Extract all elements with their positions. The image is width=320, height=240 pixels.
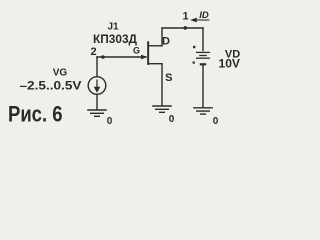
ground under source [152, 106, 172, 112]
svg-text:КП303Д: КП303Д [93, 32, 137, 46]
wire drain lead horizontal [149, 45, 163, 47]
svg-text:0: 0 [213, 116, 219, 127]
svg-text:ID: ID [199, 10, 209, 21]
svg-text:S: S [165, 72, 172, 84]
svg-text:Рис. 6: Рис. 6 [8, 102, 63, 127]
ID current arrow pointing left [192, 18, 210, 21]
svg-text:2: 2 [90, 46, 96, 58]
wire gate horizontal node2 to gate [97, 56, 146, 58]
wire node2 down to VG source [96, 57, 98, 77]
battery VD minus mark [193, 62, 195, 64]
wire source lead horizontal [149, 63, 163, 65]
svg-text:G: G [133, 46, 140, 56]
node 1 junction dot [184, 26, 188, 30]
transistor J1 gate arrowhead [141, 55, 147, 60]
ground under VG [87, 110, 107, 116]
node 2 junction dot [101, 55, 105, 59]
wire battery bottom to ground [202, 65, 204, 107]
battery VD plates [196, 52, 210, 64]
ground under battery [193, 108, 213, 114]
wire VG source bottom to ground [96, 94, 98, 109]
wire battery top vertical [202, 28, 204, 51]
svg-text:J1: J1 [107, 22, 119, 33]
voltage source VG circle [88, 77, 106, 95]
svg-text:VG: VG [53, 68, 68, 79]
svg-text:0: 0 [169, 114, 175, 125]
voltage source VG inner down arrow [95, 80, 99, 92]
svg-text:1: 1 [182, 11, 188, 23]
svg-text:0: 0 [107, 116, 113, 127]
svg-text:–2.5..0.5V: –2.5..0.5V [20, 78, 82, 92]
wire source vertical down to ground [161, 64, 163, 105]
wire drain vertical up to node1 [161, 28, 163, 46]
svg-text:10V: 10V [219, 57, 241, 71]
svg-text:D: D [162, 36, 170, 48]
wire top horizontal node1 to battery [162, 27, 203, 29]
transistor J1 KP303D channel bar [147, 41, 149, 65]
battery VD plus mark [193, 46, 195, 48]
